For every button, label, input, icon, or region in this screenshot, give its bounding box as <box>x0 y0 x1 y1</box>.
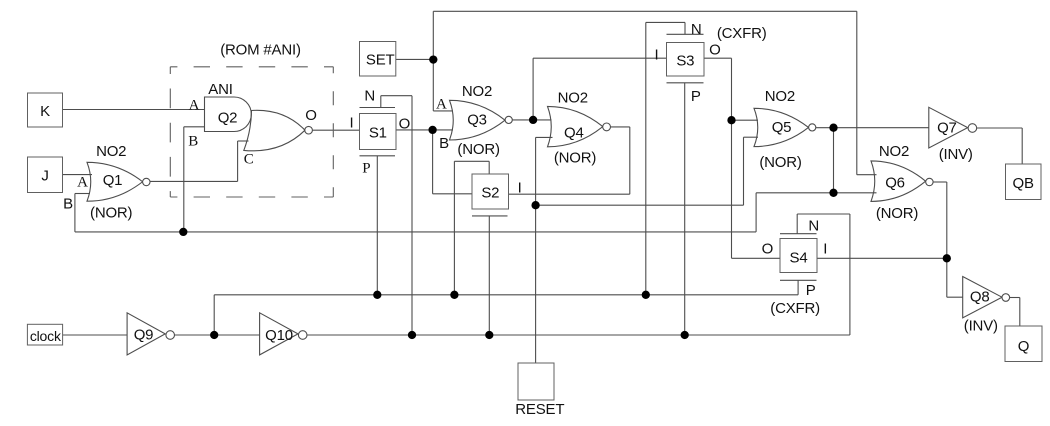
svg-text:P: P <box>691 88 701 105</box>
svg-text:I: I <box>350 114 354 131</box>
svg-text:(NOR): (NOR) <box>90 204 133 221</box>
svg-text:clock: clock <box>30 328 62 344</box>
svg-text:(NOR): (NOR) <box>554 150 597 167</box>
svg-text:Q9: Q9 <box>134 327 154 344</box>
svg-text:(INV): (INV) <box>939 146 973 163</box>
svg-text:(NOR): (NOR) <box>759 154 802 171</box>
svg-text:RESET: RESET <box>515 401 564 418</box>
svg-text:Q6: Q6 <box>885 175 905 192</box>
svg-text:S4: S4 <box>790 250 808 267</box>
svg-text:Q2: Q2 <box>218 110 238 127</box>
svg-text:B: B <box>439 135 449 152</box>
svg-text:Q1: Q1 <box>103 172 123 189</box>
svg-text:O: O <box>305 107 316 124</box>
svg-text:Q8: Q8 <box>970 289 990 306</box>
svg-text:NO2: NO2 <box>879 143 909 160</box>
svg-text:QB: QB <box>1013 175 1034 192</box>
svg-text:(ROM #ANI): (ROM #ANI) <box>220 42 301 59</box>
svg-text:A: A <box>436 97 447 113</box>
svg-text:P: P <box>362 161 370 177</box>
svg-text:K: K <box>40 103 50 120</box>
svg-text:ANI: ANI <box>208 81 232 98</box>
svg-text:C: C <box>244 152 254 168</box>
svg-text:I: I <box>823 241 827 258</box>
svg-text:(NOR): (NOR) <box>876 205 919 222</box>
svg-text:NO2: NO2 <box>558 90 588 107</box>
svg-text:Q4: Q4 <box>564 125 584 142</box>
svg-text:B: B <box>63 195 73 212</box>
svg-text:(CXFR): (CXFR) <box>717 25 767 42</box>
svg-text:Q7: Q7 <box>937 120 957 137</box>
svg-text:(CXFR): (CXFR) <box>770 300 820 317</box>
svg-text:NO2: NO2 <box>462 83 492 100</box>
svg-text:NO2: NO2 <box>765 88 795 105</box>
svg-text:Q3: Q3 <box>467 111 487 128</box>
svg-text:Q5: Q5 <box>772 119 792 136</box>
svg-text:S2: S2 <box>481 184 499 201</box>
svg-text:N: N <box>808 217 819 234</box>
svg-text:A: A <box>189 98 200 114</box>
svg-text:S3: S3 <box>676 52 694 69</box>
svg-text:P: P <box>806 282 816 299</box>
svg-text:Q10: Q10 <box>265 327 293 344</box>
svg-text:N: N <box>364 87 375 104</box>
svg-text:SET: SET <box>366 51 395 68</box>
svg-text:(NOR): (NOR) <box>457 141 500 158</box>
svg-text:S1: S1 <box>369 125 387 142</box>
svg-text:I: I <box>518 180 522 197</box>
svg-text:(INV): (INV) <box>964 318 998 335</box>
svg-text:N: N <box>691 21 702 38</box>
svg-text:O: O <box>399 116 410 133</box>
svg-text:O: O <box>762 241 773 258</box>
svg-text:Q: Q <box>1018 338 1029 355</box>
svg-text:O: O <box>709 42 720 59</box>
svg-text:B: B <box>188 133 198 149</box>
svg-text:I: I <box>655 46 659 63</box>
svg-text:J: J <box>41 168 48 185</box>
svg-text:NO2: NO2 <box>96 143 126 160</box>
svg-text:A: A <box>77 174 88 190</box>
